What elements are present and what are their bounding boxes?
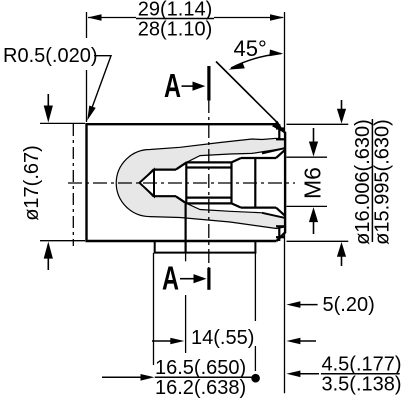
drill cone [140, 170, 155, 197]
svg-text:A: A [164, 67, 181, 104]
bottom edge [86, 240, 277, 242]
inner corner verticals [278, 124, 280, 138]
left edge [85, 123, 87, 242]
svg-text:5(.20): 5(.20) [323, 294, 375, 316]
thread start vertical [185, 162, 187, 204]
svg-text:28(1.10): 28(1.10) [138, 19, 213, 41]
svg-text:M6: M6 [300, 167, 326, 199]
svg-text:4.5(.177): 4.5(.177) [322, 353, 402, 375]
svg-text:ø15.995(.630): ø15.995(.630) [372, 119, 394, 245]
expansion diagonals [232, 158, 242, 162]
left edge extension up (broken by R0.5 text) [86, 12, 88, 38]
dimension 29(1.14)/28(1.10) top [88, 17, 283, 19]
extension lines [40, 12, 348, 393]
thread minor lines [186, 166, 231, 168]
top edge [86, 123, 277, 125]
bottom-right chamfer [277, 233, 286, 241]
thread-start extension down [185, 295, 187, 353]
right face [284, 132, 286, 233]
wedge thick diagonals (arm tips) [262, 148, 285, 218]
center line horizontal [68, 182, 295, 184]
svg-text:16.2(.638): 16.2(.638) [155, 377, 246, 399]
right face long extension [284, 12, 286, 132]
svg-text:16.5(.650): 16.5(.650) [155, 357, 246, 379]
lower step boss [154, 241, 257, 253]
bore wall short lines [276, 127, 285, 129]
inner corner horizontals [276, 138, 285, 140]
pilot top/bottom [154, 169, 176, 171]
svg-text:A: A [162, 260, 179, 297]
top-right chamfer [277, 124, 286, 132]
section line A-A dash-dot [208, 99, 210, 268]
45 aux diagonal (chamfer extended) [216, 62, 278, 124]
svg-text:29(1.14): 29(1.14) [138, 0, 213, 21]
step left edge extension down [153, 253, 155, 365]
thread end vertical [230, 162, 232, 203]
slot side edge below thread [185, 204, 187, 253]
oe16 extensions right [287, 123, 349, 125]
recess floor vertical [254, 158, 256, 208]
M6 extensions right [287, 156, 328, 158]
counterbore lines [241, 157, 276, 159]
gray section: U-shaped insert band [116, 138, 285, 228]
thread major lines [186, 161, 231, 163]
left oe17 extensions [40, 122, 85, 124]
lead chamfer diagonals [176, 162, 187, 169]
svg-text:R0.5(.020): R0.5(.020) [3, 45, 98, 67]
svg-text:14(.55): 14(.55) [191, 327, 254, 349]
body outline [86, 123, 286, 242]
internal hole: cone, pilot, thread, counterbore (mirror about y=182.8) [140, 170, 155, 197]
step right edge extension down (gap at 14(.55) text) [254, 253, 256, 321]
opening chamfers [276, 150, 285, 158]
svg-text:ø17(.67): ø17(.67) [21, 145, 43, 221]
dash-dot vertical left [72, 124, 74, 246]
svg-text:3.5(.138): 3.5(.138) [322, 373, 402, 395]
